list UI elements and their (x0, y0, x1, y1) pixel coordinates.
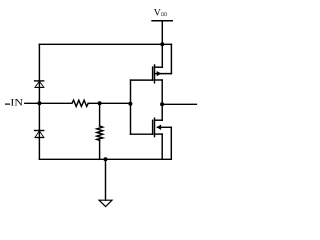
wire: ground stem (105, 159, 107, 200)
M1 source stub (top) (155, 66, 163, 68)
wire: output line (162, 103, 196, 105)
resistor R1 (72, 100, 88, 106)
node: junction at ground bus / ground stem (104, 157, 108, 161)
node: output junction (160, 102, 164, 106)
M2 source stub (bottom) (155, 133, 163, 135)
wire: R2 branch bottom segment (99, 140, 101, 159)
M2 bulk arrow (points left: NMOS) (157, 125, 161, 129)
node: junction at gate bus (128, 102, 132, 106)
diode D1 (input to top rail) (34, 81, 45, 88)
M2 drain stub (top) (155, 119, 163, 121)
wire: NMOS bulk drop (170, 127, 172, 159)
wire: ground bus horizontal (39, 158, 171, 160)
wire: PMOS gate lead (131, 79, 153, 81)
svg-text:DD: DD (161, 12, 167, 18)
node: junction at R2 branch top (98, 101, 102, 105)
ground symbol (99, 200, 112, 206)
D1 triangle (35, 81, 44, 87)
wire: input line from IN label to resistor R1 (25, 102, 72, 104)
D2 cathode bar (34, 130, 45, 132)
node: junction VDD stem / top rail (160, 42, 164, 46)
M1 gate bar (152, 67, 154, 80)
M1 drain stub (bottom) (155, 79, 163, 81)
wire: input line from R1 to gate bus (88, 102, 130, 104)
transistor M2 (NMOS) (153, 118, 172, 136)
wire: drain bus between transistors (161, 80, 163, 120)
diode D2 (ground to input) (34, 131, 45, 138)
node: input junction at left branch (37, 101, 41, 105)
D1 cathode bar (34, 80, 45, 82)
transistor M1 (PMOS) (153, 65, 172, 83)
wire: left protection branch vertical (38, 44, 40, 159)
D2 triangle (35, 131, 44, 138)
wire: VDD stem (161, 21, 163, 67)
wire: IN lead dash (6, 103, 10, 105)
M2 gate bar (152, 120, 154, 134)
power rail VDD bar (152, 20, 172, 22)
svg-text:V: V (154, 8, 161, 19)
wire: NMOS gate lead (131, 133, 153, 135)
resistor R2 (97, 126, 103, 140)
M1 bulk stub (155, 73, 172, 75)
wire: PMOS bulk drop vertical (170, 44, 172, 73)
D2 anode base accent (35, 137, 44, 139)
D1 anode base accent (35, 86, 44, 88)
M2 bulk stub (157, 126, 171, 128)
svg-text:IN: IN (10, 98, 23, 109)
M1 bulk arrow (points right: PMOS) (157, 72, 161, 76)
wire: top rail horizontal (39, 43, 171, 45)
wire: NMOS source drop (161, 134, 163, 159)
M2 channel bar (154, 118, 156, 136)
wire: R2 branch top segment (99, 103, 101, 126)
wire: gate bus vertical (130, 80, 132, 134)
M1 channel bar (154, 65, 156, 83)
